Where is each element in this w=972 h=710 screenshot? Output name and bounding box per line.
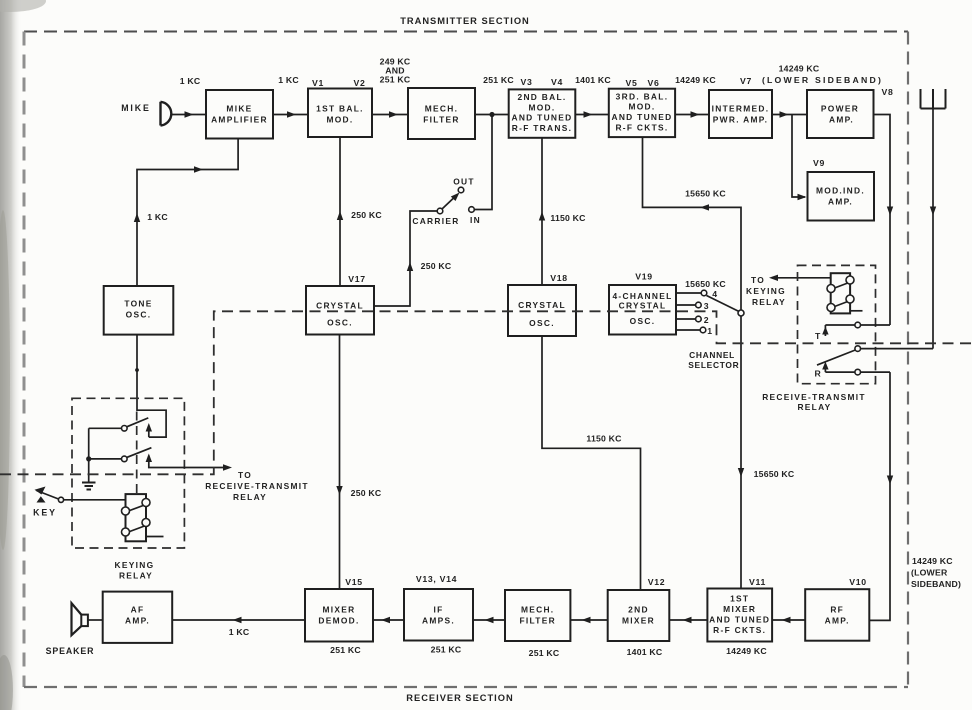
svg-text:(LOWER: (LOWER [911, 568, 948, 578]
svg-text:SELECTOR: SELECTOR [688, 360, 739, 370]
tone osc box [104, 286, 174, 335]
1st mixer box V11 [707, 589, 772, 642]
svg-text:V7: V7 [740, 76, 752, 86]
svg-text:PWR. AMP.: PWR. AMP. [713, 115, 768, 125]
svg-text:(LOWER SIDEBAND): (LOWER SIDEBAND) [762, 75, 883, 85]
svg-text:1401 KC: 1401 KC [627, 647, 663, 657]
svg-text:MIXER: MIXER [622, 616, 655, 626]
svg-text:AMP.: AMP. [125, 616, 150, 626]
svg-text:MIKE: MIKE [121, 103, 151, 113]
svg-text:RF: RF [830, 605, 844, 615]
2nd balanced modulator box V3 V4 [509, 89, 576, 137]
svg-text:251 KC: 251 KC [529, 648, 560, 658]
svg-text:CRYSTAL: CRYSTAL [316, 301, 364, 311]
svg-text:MOD.: MOD. [528, 102, 555, 112]
svg-text:V18: V18 [550, 273, 568, 283]
svg-text:4: 4 [712, 289, 718, 299]
wire mike to mike amplifier [172, 114, 206, 116]
svg-text:AMP.: AMP. [829, 115, 854, 125]
svg-text:1ST BAL.: 1ST BAL. [316, 104, 364, 114]
svg-text:MIKE: MIKE [226, 104, 252, 114]
wire tone osc down to keying relay upper switch hook [137, 335, 166, 438]
svg-text:1 KC: 1 KC [147, 212, 168, 222]
svg-text:TO: TO [751, 275, 765, 285]
svg-text:15650 KC: 15650 KC [685, 189, 726, 199]
svg-text:KEY: KEY [33, 508, 57, 518]
svg-text:1 KC: 1 KC [278, 75, 299, 85]
wire 2nd mixer to mech filter [570, 619, 607, 621]
svg-text:FILTER: FILTER [519, 616, 556, 626]
keying relay upper switch [89, 427, 122, 429]
receive-transmit relay dashed box [798, 265, 876, 383]
svg-text:V11: V11 [749, 577, 766, 587]
svg-text:SIDEBAND): SIDEBAND) [911, 579, 961, 589]
wire selector line down to 1st mixer (15650 KC) [740, 316, 742, 589]
svg-text:DEMOD.: DEMOD. [318, 616, 359, 626]
svg-text:IN: IN [470, 215, 481, 225]
svg-text:4-CHANNEL: 4-CHANNEL [612, 291, 672, 301]
wire 1st bal mod to mech filter [372, 114, 408, 116]
wire crystal osc V17 down to mixer demod [339, 335, 341, 590]
wire if amps to mixer demod [373, 619, 404, 621]
channel selector contact 2 [676, 318, 696, 320]
wire 2nd bal mod to 3rd bal mod [575, 114, 609, 116]
svg-text:TO: TO [238, 470, 252, 480]
mech filter box (receiver) [505, 590, 570, 641]
svg-text:AMPS.: AMPS. [422, 616, 455, 626]
svg-text:AND TUNED: AND TUNED [709, 615, 770, 625]
wire key to keying relay coil [64, 499, 126, 501]
svg-text:1ST: 1ST [730, 594, 749, 604]
R contact pivot (to antenna) [855, 346, 861, 352]
node dot on tone osc line [135, 368, 139, 372]
keying relay dashed box [72, 398, 184, 548]
wire power amp to T contact of receive-transmit relay [874, 115, 891, 326]
svg-text:1150 KC: 1150 KC [550, 213, 586, 223]
svg-text:TRANSMITTER SECTION: TRANSMITTER SECTION [400, 16, 530, 26]
if amps box V13 V14 [404, 589, 473, 641]
svg-text:OSC.: OSC. [327, 318, 353, 328]
wire crystal osc V18 down to 2nd mixer [542, 336, 641, 590]
wire 3rd bal mod down to channel selector line 15650 KC [643, 137, 742, 310]
microphone symbol [161, 102, 172, 126]
carrier switch OUT contact [458, 187, 464, 193]
wire junction down to mod ind amp V9 [792, 115, 805, 198]
svg-text:RECEIVER SECTION: RECEIVER SECTION [406, 693, 513, 703]
svg-text:2ND BAL.: 2ND BAL. [517, 92, 566, 102]
wire tone osc up to mike amplifier [137, 139, 238, 287]
svg-text:1150 KC: 1150 KC [586, 434, 622, 444]
svg-text:V8: V8 [881, 87, 893, 97]
wire to keying relay (from RT relay coil) [772, 277, 832, 279]
svg-text:R: R [815, 369, 822, 379]
svg-text:OSC.: OSC. [529, 318, 555, 328]
mech filter box (transmitter) [408, 88, 475, 139]
R contact lower (to rf amp) [825, 371, 890, 373]
receive-transmit relay coil [827, 273, 863, 313]
svg-text:3: 3 [704, 301, 710, 311]
section divider dashed line (transmitter/receiver) [0, 311, 972, 474]
wire R contact down to rf amp [869, 372, 890, 620]
svg-text:251 KC: 251 KC [380, 75, 411, 85]
svg-text:FILTER: FILTER [423, 115, 460, 125]
channel selector contact 1 [676, 329, 700, 331]
svg-text:V6: V6 [647, 78, 659, 88]
wire mech filter to if amps [473, 619, 505, 621]
svg-text:1401 KC: 1401 KC [575, 75, 611, 85]
outer dashed border: left [23, 32, 26, 688]
wire 3rd bal mod to intermed pwr amp [675, 114, 709, 116]
speaker symbol [72, 603, 88, 635]
R contact arm [817, 350, 855, 365]
svg-text:MIXER: MIXER [723, 604, 756, 614]
svg-text:R-F CKTS.: R-F CKTS. [713, 625, 766, 635]
wire 1st mixer to 2nd mixer [669, 619, 707, 621]
svg-text:POWER: POWER [821, 104, 859, 114]
wire carrier tap down to IN contact [475, 115, 493, 210]
svg-text:AMPLIFIER: AMPLIFIER [211, 115, 268, 125]
svg-text:14249 KC: 14249 KC [912, 556, 953, 566]
svg-text:3RD. BAL.: 3RD. BAL. [616, 91, 669, 101]
svg-text:OUT: OUT [453, 177, 475, 187]
svg-text:RELAY: RELAY [797, 402, 831, 412]
svg-text:RECEIVE-TRANSMIT: RECEIVE-TRANSMIT [205, 481, 309, 491]
svg-text:MECH.: MECH. [521, 605, 555, 615]
power amplifier box V8 [807, 90, 874, 138]
channel selector contact 3 [676, 304, 696, 306]
svg-text:R-F CKTS.: R-F CKTS. [615, 122, 668, 132]
T contact of receive-transmit relay [825, 324, 890, 326]
svg-text:251 KC: 251 KC [431, 645, 462, 655]
svg-text:MECH.: MECH. [425, 104, 459, 114]
svg-text:2ND: 2ND [628, 605, 649, 615]
svg-text:AND TUNED: AND TUNED [611, 112, 672, 122]
svg-text:250 KC: 250 KC [351, 210, 382, 220]
svg-text:251 KC: 251 KC [483, 75, 514, 85]
svg-text:OSC.: OSC. [126, 310, 152, 320]
wire antenna lead down to R contact [932, 109, 934, 349]
svg-text:MIXER: MIXER [322, 605, 355, 615]
svg-text:MOD.: MOD. [326, 115, 353, 125]
wire rf amp to 1st mixer [772, 619, 805, 621]
svg-text:V19: V19 [635, 272, 653, 282]
svg-text:MOD.IND.: MOD.IND. [816, 186, 865, 196]
wire mixer demod to af amp [172, 619, 305, 621]
svg-text:15650 KC: 15650 KC [754, 469, 795, 479]
svg-text:CRYSTAL: CRYSTAL [518, 300, 566, 310]
svg-text:1 KC: 1 KC [229, 627, 250, 637]
svg-text:AF: AF [131, 605, 145, 615]
wire crystal osc V17 up to 1st bal mod [339, 137, 341, 286]
channel selector wiper arm [707, 296, 740, 312]
svg-text:250 KC: 250 KC [351, 488, 382, 498]
svg-text:CRYSTAL: CRYSTAL [619, 301, 667, 311]
svg-text:OSC.: OSC. [630, 316, 656, 326]
svg-text:KEYING: KEYING [746, 286, 786, 296]
svg-text:CHANNEL: CHANNEL [689, 350, 735, 360]
keying relay coil [122, 494, 164, 541]
svg-text:R-F TRANS.: R-F TRANS. [512, 123, 572, 133]
wire 2nd bal mod down to crystal osc V18 [541, 138, 543, 285]
svg-text:1 KC: 1 KC [180, 76, 201, 86]
af amp box [103, 592, 173, 643]
svg-text:V9: V9 [813, 158, 825, 168]
svg-text:V2: V2 [353, 78, 365, 88]
svg-text:1: 1 [707, 326, 713, 336]
wire mech filter to 2nd bal mod [475, 114, 509, 116]
crystal osc box V17 [306, 286, 374, 335]
mod ind amp box V9 [808, 172, 875, 221]
svg-text:V13, V14: V13, V14 [416, 574, 457, 584]
svg-text:TONE: TONE [124, 299, 152, 309]
svg-text:V10: V10 [849, 577, 867, 587]
rf amp box V10 [805, 589, 869, 641]
svg-text:IF: IF [433, 605, 443, 615]
4-channel crystal osc box V19 [609, 285, 676, 335]
outer dashed border: right [907, 32, 909, 688]
svg-text:T: T [815, 331, 821, 341]
mike amplifier box [206, 90, 273, 139]
wire lower switch hook to receive-transmit relay [149, 456, 223, 468]
mechanical dashed link coil to switches [136, 412, 138, 495]
svg-text:14249 KC: 14249 KC [726, 646, 767, 656]
svg-text:15650 KC: 15650 KC [685, 279, 726, 289]
intermediate power amplifier box V7 [709, 90, 772, 138]
wire upper to lower switch and ground [88, 428, 90, 482]
svg-text:14249 KC: 14249 KC [675, 75, 716, 85]
node carrier tap junction [489, 112, 494, 117]
svg-text:V3: V3 [520, 77, 532, 87]
svg-text:INTERMED.: INTERMED. [712, 104, 770, 114]
carrier switch IN contact [469, 207, 475, 213]
svg-text:2: 2 [704, 315, 710, 325]
channel selector contact 4 [676, 292, 701, 294]
1st balanced modulator box V1 V2 [308, 89, 372, 138]
wire speaker to af amp [88, 619, 103, 621]
transmitter/receiver outer dashed border: top [24, 31, 908, 33]
svg-text:AMP.: AMP. [828, 197, 853, 207]
svg-text:250 KC: 250 KC [421, 261, 452, 271]
wire mike amp to 1st bal mod [273, 114, 308, 116]
svg-text:V17: V17 [348, 274, 366, 284]
svg-text:CARRIER: CARRIER [412, 216, 459, 226]
svg-text:RELAY: RELAY [752, 297, 786, 307]
wire carrier switch common to crystal osc V17 [374, 211, 437, 306]
svg-text:14249 KC: 14249 KC [779, 64, 820, 74]
svg-text:V1: V1 [312, 78, 324, 88]
3rd balanced modulator box V5 V6 [609, 89, 675, 137]
ground [82, 483, 96, 490]
svg-text:SPEAKER: SPEAKER [46, 646, 95, 656]
svg-text:V15: V15 [345, 577, 363, 587]
svg-text:AMP.: AMP. [825, 616, 850, 626]
svg-text:V4: V4 [551, 77, 563, 87]
svg-text:251 KC: 251 KC [330, 645, 361, 655]
carrier switch common pole and arm [437, 208, 443, 214]
svg-text:V12: V12 [648, 577, 666, 587]
wire intermed pwr amp to power amp [772, 114, 807, 116]
svg-text:RELAY: RELAY [119, 571, 153, 581]
2nd mixer box V12 [608, 590, 670, 641]
telegraph key [37, 491, 59, 500]
svg-text:RELAY: RELAY [233, 492, 267, 502]
svg-text:V5: V5 [625, 78, 637, 88]
keying relay lower switch [89, 458, 122, 460]
svg-text:AND TUNED: AND TUNED [511, 113, 572, 123]
svg-text:MOD.: MOD. [628, 102, 655, 112]
svg-text:KEYING: KEYING [115, 560, 155, 570]
svg-text:RECEIVE-TRANSMIT: RECEIVE-TRANSMIT [762, 392, 866, 402]
crystal osc box V18 [508, 285, 576, 336]
mixer demod box V15 [305, 589, 373, 642]
outer dashed border: bottom [24, 686, 908, 688]
antenna [921, 89, 946, 109]
